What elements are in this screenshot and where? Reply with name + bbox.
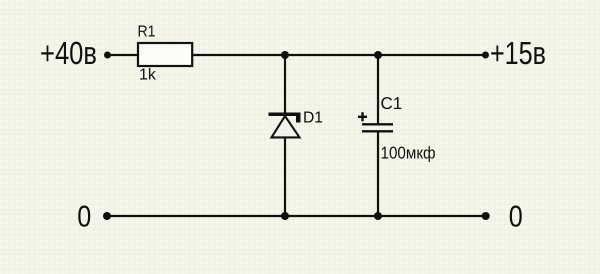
svg-text:C1: C1 [381,94,403,113]
terminal dot left bottom [103,212,111,220]
wire bottom rail [107,215,486,217]
svg-text:+15в: +15в [490,35,546,71]
zener diode D1 triangle [272,116,300,137]
capacitor C1 bottom plate [362,130,393,132]
junction dot top diode [281,51,289,59]
capacitor C1 plus sign [358,112,367,121]
svg-text:100мкф: 100мкф [381,143,436,162]
svg-text:+40в: +40в [40,35,97,71]
svg-text:0: 0 [509,200,523,233]
svg-text:R1: R1 [138,24,156,41]
svg-text:D1: D1 [303,110,323,127]
wire top rail right segment [192,54,486,56]
junction dot top capacitor [374,51,382,59]
wire capacitor branch lower [377,131,379,216]
svg-text:1k: 1k [139,67,157,84]
terminal dot left top [104,52,111,59]
junction dot bottom capacitor [374,212,382,220]
wire top rail left segment [108,54,138,56]
wire diode branch lower [284,137,286,216]
capacitor C1 top plate [362,123,393,125]
terminal dot right bottom [482,212,490,220]
svg-text:0: 0 [77,200,91,233]
resistor R1 [138,43,192,66]
wire diode branch upper [284,55,286,114]
terminal dot right top [482,52,489,59]
wire capacitor branch upper [377,55,379,124]
junction dot bottom diode [281,212,289,220]
zener diode D1 cathode bar [269,113,301,123]
